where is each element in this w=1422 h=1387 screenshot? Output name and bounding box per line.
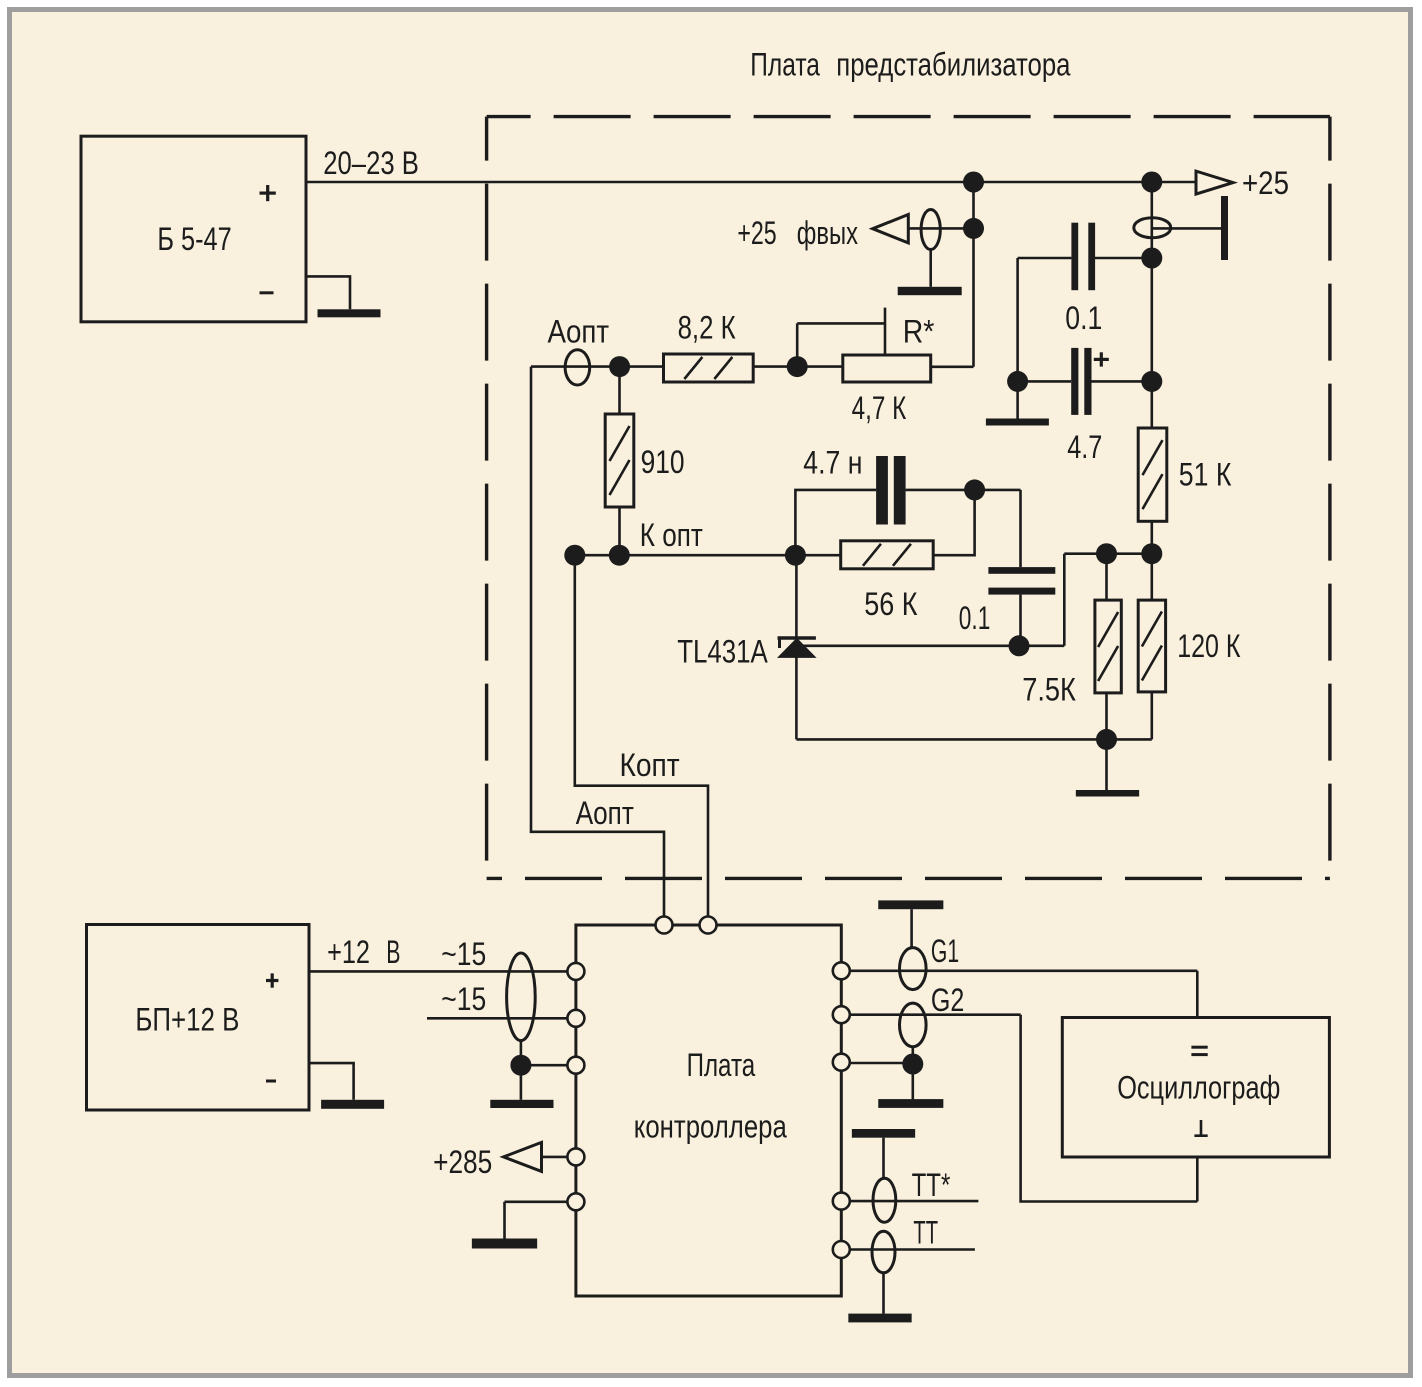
svg-text:предстабилизатора: предстабилизатора (836, 47, 1070, 83)
svg-text:К опт: К опт (640, 517, 703, 553)
svg-text:+12: +12 (327, 934, 370, 970)
svg-text:В: В (386, 934, 400, 970)
svg-text:контроллера: контроллера (634, 1109, 787, 1145)
svg-text:Копт: Копт (620, 747, 681, 783)
svg-text:120 К: 120 К (1177, 628, 1241, 664)
svg-text:4.7 н: 4.7 н (803, 444, 862, 480)
svg-text:R*: R* (903, 314, 935, 350)
svg-text:+25: +25 (1242, 165, 1289, 201)
svg-text:20–23 В: 20–23 В (323, 145, 419, 181)
svg-text:TT: TT (913, 1214, 938, 1250)
svg-text:Аопт: Аопт (576, 795, 634, 831)
svg-text:Плата: Плата (687, 1047, 756, 1083)
svg-text:TL431A: TL431A (677, 633, 768, 669)
svg-text:~15: ~15 (441, 981, 486, 1017)
svg-text:7.5К: 7.5К (1022, 671, 1076, 707)
svg-text:БП+12 В: БП+12 В (135, 1002, 239, 1038)
svg-text:4,7 К: 4,7 К (852, 390, 907, 426)
svg-text:Осциллограф: Осциллограф (1117, 1070, 1280, 1106)
svg-text:G2: G2 (931, 982, 964, 1018)
svg-text:0.1: 0.1 (959, 600, 991, 636)
svg-text:0.1: 0.1 (1065, 300, 1102, 336)
svg-text:51 К: 51 К (1179, 456, 1232, 492)
svg-text:4.7: 4.7 (1067, 429, 1102, 465)
svg-text:8,2 К: 8,2 К (678, 310, 736, 346)
svg-text:~15: ~15 (441, 936, 486, 972)
svg-text:+25: +25 (737, 215, 776, 251)
svg-text:56 К: 56 К (864, 586, 918, 622)
svg-text:Б 5-47: Б 5-47 (157, 221, 231, 257)
svg-text:Аопт: Аопт (548, 314, 610, 350)
svg-text:910: 910 (641, 444, 685, 480)
svg-text:+285: +285 (433, 1144, 492, 1180)
svg-text:TT*: TT* (912, 1167, 951, 1203)
svg-text:фвых: фвых (797, 215, 858, 251)
svg-text:G1: G1 (931, 933, 959, 969)
svg-text:Плата: Плата (750, 47, 820, 83)
